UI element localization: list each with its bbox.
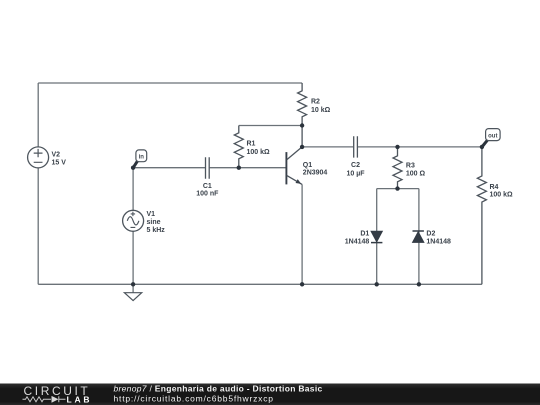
junction R1 base: [237, 166, 241, 170]
svg-text:100 nF: 100 nF: [196, 191, 219, 198]
svg-text:2N3904: 2N3904: [303, 169, 328, 176]
svg-text:10 kΩ: 10 kΩ: [311, 107, 331, 114]
junction in node: [131, 166, 135, 170]
svg-text:brenop7 / Engenharia de audio: brenop7 / Engenharia de audio - Distorti…: [114, 384, 323, 394]
svg-text:out: out: [488, 134, 497, 140]
ground: [124, 284, 141, 300]
junction R1 R2: [300, 123, 304, 127]
junction emitter rail: [300, 282, 304, 286]
svg-text:D2: D2: [426, 231, 435, 238]
svg-text:R2: R2: [311, 98, 320, 105]
svg-text:in: in: [139, 155, 145, 161]
svg-text:D1: D1: [360, 231, 369, 238]
svg-text:100 kΩ: 100 kΩ: [247, 149, 271, 156]
wire V1 to ground rail: [132, 231, 134, 284]
svg-text:R1: R1: [247, 140, 256, 147]
svg-text:Q1: Q1: [303, 162, 312, 169]
wire D1 branch: [376, 189, 378, 285]
transistor Q1: [286, 147, 327, 185]
wire base (in to C1 to Q1): [133, 167, 286, 169]
wire D2 branch: [418, 189, 420, 285]
svg-text:100 kΩ: 100 kΩ: [490, 192, 514, 199]
svg-text:V2: V2: [52, 152, 61, 159]
footer title text: [114, 384, 323, 404]
footer bar: [0, 384, 540, 405]
wire bottom rail: [38, 283, 482, 285]
svg-text:15 V: 15 V: [52, 160, 67, 167]
wire left rail lower: [37, 168, 39, 284]
junction out node: [480, 145, 484, 149]
wire emitter to bottom rail: [301, 184, 303, 284]
svg-text:1N4148: 1N4148: [426, 238, 451, 245]
svg-text:R3: R3: [406, 162, 415, 169]
capacitor C2: [346, 136, 365, 177]
svg-text:5 kHz: 5 kHz: [147, 227, 166, 234]
wire top rail: [38, 82, 302, 84]
svg-text:R4: R4: [490, 184, 499, 191]
svg-text:V1: V1: [147, 211, 156, 218]
node in: [133, 150, 146, 167]
wire C2 to out: [358, 146, 482, 148]
junction R3 top: [395, 145, 399, 149]
voltage source V2: [28, 147, 67, 168]
junction ground rail: [131, 282, 135, 286]
resistor R2: [298, 83, 331, 147]
wire V1 to in node: [132, 168, 134, 211]
junction R3 bottom: [395, 186, 399, 190]
junction D1 rail: [375, 282, 379, 286]
diode D2: [412, 231, 451, 246]
resistor R1: [234, 126, 270, 168]
svg-text:sine: sine: [147, 219, 161, 226]
node out: [482, 129, 500, 147]
wire diode header: [377, 188, 419, 190]
svg-text:10 µF: 10 µF: [346, 170, 365, 177]
diode D1: [345, 231, 383, 246]
svg-text:LAB: LAB: [67, 394, 93, 404]
wire left rail upper: [37, 83, 39, 147]
resistor R4: [477, 147, 513, 284]
junction collector: [300, 145, 304, 149]
logo CIRCUIT LAB: [23, 384, 93, 404]
svg-text:C1: C1: [203, 183, 212, 190]
voltage source V1: [123, 210, 166, 234]
capacitor C1: [196, 157, 219, 197]
svg-text:C2: C2: [351, 162, 360, 169]
wire R1 top branch: [239, 125, 302, 127]
svg-text:100 Ω: 100 Ω: [406, 170, 426, 177]
svg-text:1N4148: 1N4148: [345, 238, 370, 245]
junction D2 rail: [417, 282, 421, 286]
svg-text:http://circuitlab.com/c6bb5fhw: http://circuitlab.com/c6bb5fhwrzxcp: [114, 394, 274, 404]
wire collector to C2: [302, 146, 353, 148]
resistor R3: [393, 147, 426, 189]
